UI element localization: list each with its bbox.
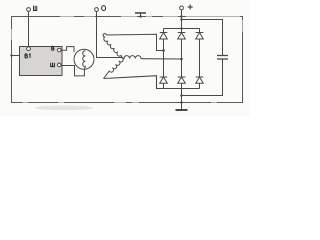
terminal 0 (95, 8, 99, 12)
pin B of regulator (57, 48, 61, 52)
label Ш (34, 6, 37, 11)
node + on frame (180, 15, 182, 17)
stator phase A wire to bridge leg 1 (107, 34, 164, 50)
wire pin Ш to brush (bottom) (61, 66, 84, 76)
chassis ground (bottom) (181, 103, 183, 110)
node regulator supply on frame (10, 54, 12, 56)
diode VD1 (160, 33, 168, 40)
stator phase A coil (103, 34, 122, 58)
wire bridge minus to chassis (181, 89, 183, 103)
diode VD6 (196, 77, 204, 83)
field winding coil (83, 51, 86, 70)
node capacitor return (180, 94, 182, 96)
bridge leg 1 (163, 29, 165, 89)
wire capacitor to chassis (182, 59, 223, 96)
wire Ш terminal to regulator (28, 11, 30, 46)
label B pin (52, 46, 54, 50)
stator phase C wire to bridge (104, 76, 164, 89)
voltage regulator B1 (20, 47, 63, 76)
label + (188, 5, 193, 10)
capacitor C1 (217, 55, 228, 57)
stator phase B coil (122, 56, 142, 59)
bridge leg 2 (181, 29, 183, 89)
wire pin B to brush (top) (61, 47, 74, 53)
terminal + (180, 6, 184, 10)
rotor (slip rings) (74, 49, 94, 69)
chassis ground (top) (135, 12, 146, 14)
terminal Ш (27, 8, 31, 12)
diode VD2 (178, 33, 186, 40)
wire 0 terminal to stator neutral (97, 11, 123, 57)
rectifier top bus (164, 28, 200, 30)
wire + terminal down to bridge bus (181, 10, 183, 29)
rectifier bottom bus (164, 88, 200, 90)
diode VD3 (196, 33, 204, 40)
stator phase B wire to bridge leg 2 (142, 58, 182, 60)
scan smudge (35, 105, 93, 110)
label 0 (102, 6, 106, 11)
label B1 (25, 54, 30, 58)
pin Ш of regulator (57, 63, 61, 67)
node phase A (162, 49, 165, 52)
frame fade marks (12, 17, 243, 103)
node bus-plus (180, 27, 182, 29)
node phase B (180, 58, 183, 61)
node on frame bottom (180, 101, 182, 103)
diode VD4 (160, 77, 168, 83)
wire frame to regulator (12, 55, 20, 57)
pin on top of regulator (27, 47, 31, 51)
label Ш pin (51, 63, 55, 67)
frame (generator case) (12, 17, 243, 103)
bridge leg 3 (199, 29, 201, 89)
diode VD5 (178, 77, 186, 83)
stator phase C coil (104, 58, 124, 79)
wire + to capacitor (182, 20, 223, 56)
node + wire junction (180, 18, 182, 20)
